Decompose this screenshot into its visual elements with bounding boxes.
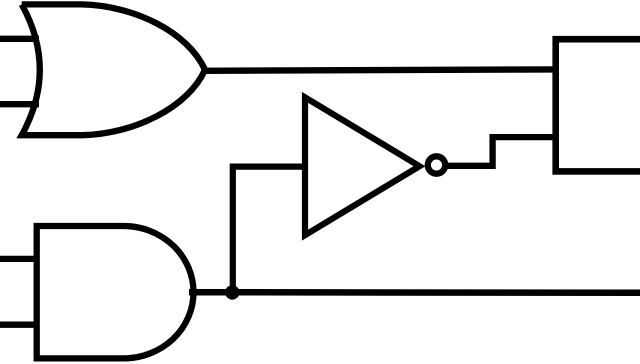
AND gate U2 <box>37 226 194 358</box>
inverter U3 triangle <box>305 97 420 235</box>
wire AND input A <box>0 256 39 262</box>
inverter U3 bubble <box>428 156 445 173</box>
wire OR output to box <box>202 69 557 70</box>
wire AND input B <box>0 322 39 328</box>
wire OR input B <box>0 101 39 107</box>
OR gate U1 <box>22 4 205 135</box>
wire junction up to inverter input <box>233 167 307 293</box>
wire AND output to right edge <box>189 289 640 296</box>
junction node <box>225 285 239 299</box>
wire OR input A <box>0 36 39 42</box>
box U4 <box>556 39 640 171</box>
wire inverter output step to box <box>447 137 557 166</box>
